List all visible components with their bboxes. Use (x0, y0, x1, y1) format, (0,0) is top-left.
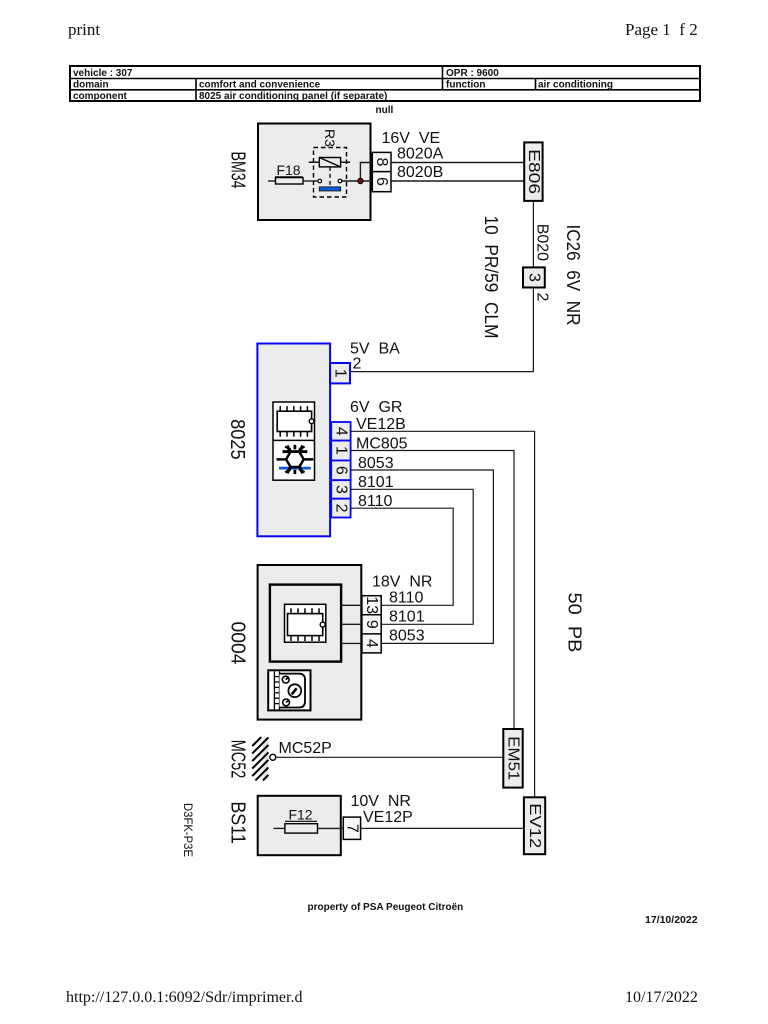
wire MC805 from pin 1 to EM51 (351, 451, 514, 730)
svg-text:8110: 8110 (389, 589, 424, 606)
svg-text:comfort and convenience: comfort and convenience (199, 80, 321, 91)
svg-text:0004: 0004 (226, 622, 248, 665)
svg-text:E806: E806 (525, 149, 542, 194)
svg-text:6: 6 (332, 466, 349, 475)
table row line 1 (70, 78, 700, 80)
relay contact circle right (338, 179, 342, 183)
svg-text:8110: 8110 (358, 493, 393, 510)
BM34 pin block 8/6 (372, 152, 391, 191)
blower big dial (288, 684, 301, 697)
svg-text:1: 1 (332, 446, 349, 455)
wire fuse to relay contact (303, 180, 318, 182)
BS11 pin box 7 (343, 817, 360, 839)
table column divider x196 (195, 79, 197, 102)
box 0004 blower unit (258, 565, 362, 720)
0004 internal pin stubs (341, 605, 362, 643)
svg-text:print: print (68, 20, 100, 39)
svg-text:VE12B: VE12B (356, 416, 406, 433)
svg-text:3: 3 (332, 485, 349, 494)
svg-text:9: 9 (363, 620, 380, 629)
svg-text:4: 4 (363, 639, 380, 648)
blower ladder strip (274, 671, 279, 709)
svg-text:10/17/2022: 10/17/2022 (625, 989, 698, 1006)
svg-text:MC52: MC52 (227, 740, 249, 779)
svg-text:1: 1 (332, 369, 349, 378)
table column divider x535 (535, 79, 537, 90)
8025 pin 6 (331, 461, 350, 481)
svg-text:domain: domain (73, 80, 109, 91)
svg-text:2: 2 (534, 293, 551, 302)
wire 8110 from pin 2 to 0004 pin 13 (351, 508, 454, 605)
svg-text:7: 7 (344, 824, 361, 833)
svg-text:8053: 8053 (358, 455, 394, 472)
wire contact to junction (342, 180, 373, 182)
relay R3 dashed enclosure (314, 148, 347, 198)
junction node dot (358, 178, 363, 183)
svg-text:vehicle : 307: vehicle : 307 (73, 68, 133, 79)
wire splice down then left to 8025 pin 1 (350, 288, 533, 372)
relay coil body (319, 158, 340, 167)
svg-text:IC26 6V NR: IC26 6V NR (563, 225, 584, 326)
svg-text:B020: B020 (534, 224, 551, 261)
svg-text:http://127.0.0.1:6092/Sdr/impr: http://127.0.0.1:6092/Sdr/imprimer.d (66, 989, 302, 1006)
svg-text:2: 2 (332, 504, 349, 513)
8025 pin 1 top box (330, 363, 350, 383)
ground MC52 hatch (252, 737, 268, 780)
svg-text:17/10/2022: 17/10/2022 (645, 914, 698, 926)
svg-text:10 PR/59 CLM: 10 PR/59 CLM (481, 216, 502, 339)
table column divider x442 (442, 66, 444, 90)
0004 IC pins top (291, 608, 319, 613)
splice box 3 (523, 267, 545, 287)
relay coil left stub (309, 161, 320, 163)
svg-text:6: 6 (373, 177, 390, 186)
fuse F18 body (276, 178, 304, 184)
svg-text:F18: F18 (276, 162, 300, 178)
table row line 2 (70, 89, 700, 91)
svg-text:air conditioning: air conditioning (538, 80, 613, 91)
IC chip pins bottom (280, 432, 307, 437)
svg-text:50 PB: 50 PB (564, 593, 585, 653)
wire MC52P to EM51 (276, 756, 504, 758)
wire 8020A (391, 162, 524, 164)
svg-text:BS11: BS11 (227, 801, 249, 844)
relay contact circle left (318, 179, 322, 183)
svg-text:8101: 8101 (358, 474, 394, 491)
8025 pin 4 (331, 422, 350, 441)
relay contact blue bar (319, 187, 340, 191)
inner frame divider (273, 439, 315, 441)
svg-text:component: component (73, 91, 128, 102)
svg-text:8: 8 (373, 158, 390, 167)
wire fuse to pin 7 (318, 827, 344, 829)
8025 pin 1 (331, 441, 350, 461)
svg-text:8020A: 8020A (397, 146, 444, 163)
8025 pin 2 (331, 499, 350, 518)
svg-text:10V NR: 10V NR (351, 793, 411, 810)
relay coil right stub (341, 161, 351, 163)
svg-text:13: 13 (363, 596, 380, 614)
0004 IC pins bottom (291, 636, 319, 641)
branch wire up to pin 8 (360, 163, 372, 182)
pin divider (372, 171, 391, 173)
svg-text:BM34: BM34 (227, 152, 249, 189)
ground terminal circle (270, 754, 276, 760)
svg-text:OPR : 9600: OPR : 9600 (446, 68, 499, 79)
svg-text:8025: 8025 (226, 419, 248, 460)
svg-text:16V VE: 16V VE (382, 130, 441, 147)
0004 IC chip body (288, 614, 323, 636)
0004 pin block 13/9/4 (362, 596, 381, 653)
svg-text:R3: R3 (322, 129, 338, 147)
connector EV12 (524, 797, 545, 854)
box 8025 air conditioning panel (257, 344, 330, 537)
wire into fuse F18 (268, 180, 276, 182)
relay coil diagonal (319, 158, 340, 167)
svg-text:8053: 8053 (389, 628, 425, 645)
info table outer border (70, 66, 700, 101)
svg-text:4: 4 (332, 427, 349, 436)
svg-text:EM51: EM51 (505, 736, 522, 780)
blower motor symbol (268, 670, 310, 710)
connector E806 (524, 142, 542, 201)
svg-text:8025 air conditioning panel (i: 8025 air conditioning panel (if separate… (199, 91, 387, 102)
blower small dial bottom (283, 699, 290, 706)
F18 underline (275, 176, 303, 178)
svg-text:null: null (376, 105, 394, 116)
wire E806 down to splice 3 (532, 201, 534, 267)
0004 inner module frame (270, 585, 341, 662)
box BS11 fuse box (258, 796, 341, 855)
svg-text:2: 2 (353, 356, 362, 373)
svg-text:8101: 8101 (389, 608, 425, 625)
wire 8053 from pin 6 to 0004 pin 4 (351, 470, 494, 643)
svg-text:6V GR: 6V GR (350, 399, 402, 416)
box BM34 (fuse/relay unit) (258, 124, 371, 221)
snowflake icon (277, 445, 314, 474)
blower small dial top (282, 676, 289, 683)
svg-text:MC52P: MC52P (279, 740, 332, 757)
wire VE12B from pin 4 to EV12 (351, 431, 535, 797)
wire 8101 from pin 3 to 0004 pin 9 (351, 489, 474, 624)
svg-text:function: function (446, 80, 485, 91)
blower rounded body (280, 674, 306, 708)
IC chip pins top (280, 406, 307, 411)
svg-text:MC805: MC805 (356, 435, 408, 452)
wire VE12P to EV12 (361, 827, 524, 829)
wire 8020B (391, 180, 524, 182)
connector EM51 (503, 729, 522, 788)
fuse F12 body (285, 824, 318, 833)
svg-text:18V NR: 18V NR (372, 574, 432, 591)
0004 IC white frame (285, 604, 326, 642)
svg-text:Page 1 f 2: Page 1 f 2 (625, 20, 698, 39)
svg-text:EV12: EV12 (526, 803, 543, 848)
svg-text:3: 3 (525, 273, 542, 282)
IC chip body (277, 411, 311, 431)
svg-text:F12: F12 (288, 807, 312, 823)
wire into fuse F12 (274, 827, 285, 829)
svg-text:VE12P: VE12P (363, 809, 413, 826)
relay actuator dashed link (329, 167, 331, 187)
svg-text:8020B: 8020B (397, 164, 443, 181)
8025 pin 3 (331, 480, 350, 499)
svg-text:property of PSA Peugeot Citroë: property of PSA Peugeot Citroën (308, 902, 464, 913)
svg-text:D3FK-P3E: D3FK-P3E (181, 803, 195, 857)
0004 IC notch (320, 622, 325, 627)
8025 inner symbol frame (273, 402, 315, 480)
F12 underline (285, 820, 317, 822)
IC chip notch (309, 419, 314, 424)
